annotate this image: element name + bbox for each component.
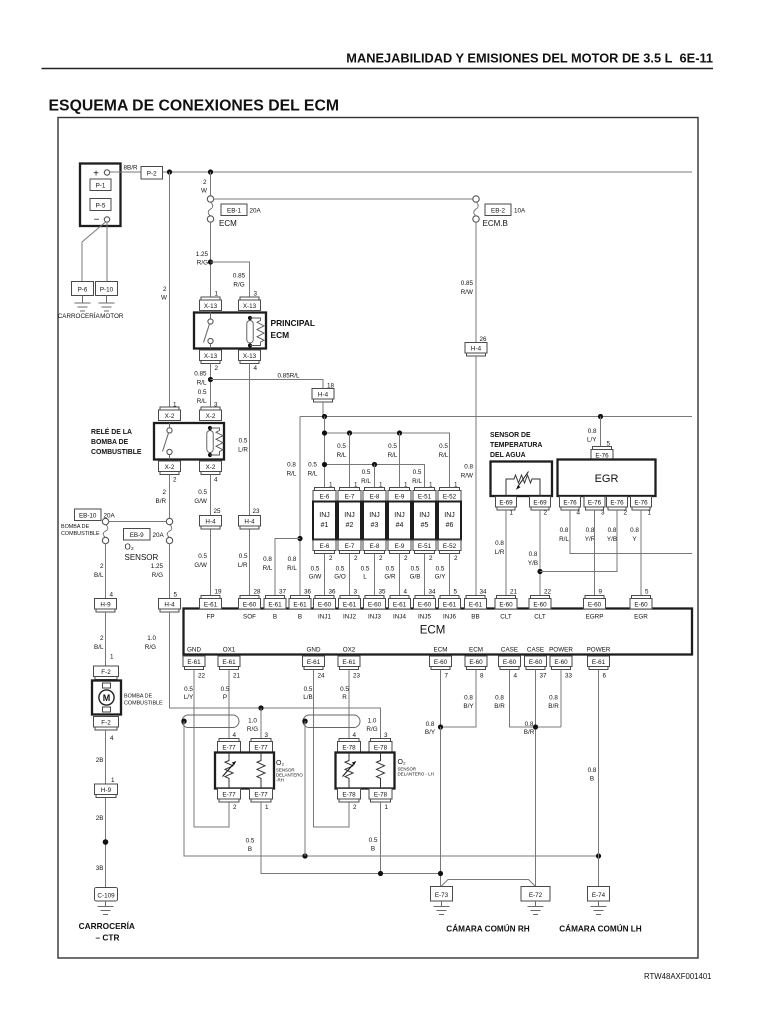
svg-text:B: B xyxy=(248,846,252,853)
connector E-60 pin 4 (CASE) xyxy=(499,647,521,680)
svg-text:4: 4 xyxy=(577,510,581,517)
svg-text:0.5: 0.5 xyxy=(246,838,255,845)
connector H-4 pin 5 xyxy=(159,592,181,613)
node sensor2 pin1 joins bus xyxy=(378,871,383,876)
connector X-2 pin 3 xyxy=(200,402,222,421)
svg-text:0.85: 0.85 xyxy=(233,273,246,280)
svg-text:E-7: E-7 xyxy=(345,543,355,550)
connector E-77 pin 3 xyxy=(250,732,273,752)
svg-text:OX2: OX2 xyxy=(343,647,356,654)
svg-text:P-10: P-10 xyxy=(100,287,114,294)
svg-text:E-7: E-7 xyxy=(345,494,355,501)
svg-text:8: 8 xyxy=(480,673,484,680)
connector E-76 pin 2 xyxy=(607,497,628,517)
svg-text:E-77: E-77 xyxy=(254,745,268,752)
battery box xyxy=(80,164,121,227)
connector H-9 pin 4 xyxy=(95,592,117,613)
svg-text:R/L: R/L xyxy=(439,452,449,459)
svg-text:E-78: E-78 xyxy=(342,792,356,799)
svg-text:CARROCERÍA: CARROCERÍA xyxy=(79,921,135,931)
connector E-60 pin 22 (CLT) xyxy=(529,589,552,621)
connector E-52 pin 1 xyxy=(438,482,461,502)
svg-text:0.5: 0.5 xyxy=(198,389,207,396)
svg-text:R/L: R/L xyxy=(412,478,422,485)
svg-text:5: 5 xyxy=(174,592,178,599)
wire INJ3 drop xyxy=(374,465,376,488)
svg-text:E-61: E-61 xyxy=(268,602,282,609)
svg-text:G/O: G/O xyxy=(334,574,346,581)
svg-text:0.8: 0.8 xyxy=(529,551,538,558)
svg-text:CASE: CASE xyxy=(501,647,518,654)
injector INJ5 xyxy=(413,502,436,540)
svg-text:4: 4 xyxy=(233,732,237,739)
svg-text:BOMBA DE: BOMBA DE xyxy=(124,694,153,700)
svg-text:20A: 20A xyxy=(104,513,116,520)
svg-text:R/G: R/G xyxy=(152,572,163,579)
svg-text:TEMPERATURA: TEMPERATURA xyxy=(490,442,542,449)
svg-text:−: − xyxy=(94,215,100,226)
injector INJ4 xyxy=(388,502,411,540)
connector E-61 pin 19 (FP) xyxy=(200,589,223,621)
svg-text:0.8: 0.8 xyxy=(287,462,296,469)
ground camara comun LH (E-74) xyxy=(591,901,607,915)
schematic frame border xyxy=(58,118,698,959)
svg-text:0.5: 0.5 xyxy=(361,566,370,573)
svg-text:L/R: L/R xyxy=(238,562,248,569)
svg-text:E-76: E-76 xyxy=(610,500,624,507)
wire INJ5 to ECM xyxy=(424,554,426,596)
svg-text:0.5: 0.5 xyxy=(340,686,349,693)
node battery branch xyxy=(167,169,172,174)
connector E-78 pin 4 xyxy=(338,732,361,752)
connector E-60 pin 7 (ECM) xyxy=(430,647,452,680)
svg-text:EGR: EGR xyxy=(595,473,619,485)
svg-text:Y/B: Y/B xyxy=(607,536,617,543)
svg-text:8B/R: 8B/R xyxy=(124,165,138,172)
svg-text:34: 34 xyxy=(480,589,488,596)
fuse EB-9 20A xyxy=(124,518,173,543)
svg-text:M: M xyxy=(103,693,111,703)
connector E-9 pin 1 xyxy=(388,482,411,502)
connector E-52 pin 2 xyxy=(438,540,461,562)
svg-text:0.5: 0.5 xyxy=(369,837,378,844)
connector H-4 pin 26 xyxy=(465,336,487,356)
ground carroceria CTR xyxy=(98,901,114,915)
svg-text:2: 2 xyxy=(233,804,237,811)
relay PRINCIPAL ECM xyxy=(194,313,266,349)
connector E-61 pin 34 (BB) xyxy=(465,589,488,621)
svg-text:E-9: E-9 xyxy=(395,494,405,501)
svg-text:BOMBA DE: BOMBA DE xyxy=(61,524,90,530)
svg-text:FP: FP xyxy=(206,614,214,621)
svg-text:0.5: 0.5 xyxy=(239,553,248,560)
wire INJ2 drop xyxy=(349,433,351,488)
svg-text:ECM: ECM xyxy=(434,647,448,654)
connector E-76 pin 4 xyxy=(560,497,581,517)
svg-text:37: 37 xyxy=(279,589,287,596)
svg-text:B/R: B/R xyxy=(494,703,505,710)
wire ECM B/Y to E-73 xyxy=(440,727,442,887)
wire injector feed vertical INJ1 xyxy=(324,417,326,488)
svg-text:2: 2 xyxy=(544,510,548,517)
svg-text:H-4: H-4 xyxy=(318,392,329,399)
svg-text:0.5: 0.5 xyxy=(198,553,207,560)
svg-text:E-8: E-8 xyxy=(370,494,380,501)
svg-text:B/R: B/R xyxy=(524,729,535,736)
svg-text:1: 1 xyxy=(385,804,389,811)
wire EB-9 to H-4 5 xyxy=(169,544,171,599)
wire H-4 23 to ECM SOF xyxy=(249,529,251,596)
svg-text:0.5: 0.5 xyxy=(239,438,248,445)
svg-text:36: 36 xyxy=(329,589,337,596)
svg-text:L: L xyxy=(363,574,367,581)
node line B INJ2 tap xyxy=(347,430,352,435)
connector F-2 pin 1 xyxy=(94,654,119,680)
svg-text:E-60: E-60 xyxy=(418,602,432,609)
wire fuse link EB-10 to EB-9 xyxy=(109,521,167,523)
connector X-2 pin 4 xyxy=(200,461,222,484)
svg-text:Y/B: Y/B xyxy=(528,560,538,567)
connector E-76 pin 3 xyxy=(584,497,605,517)
svg-text:R/G: R/G xyxy=(366,726,377,733)
svg-text:P-5: P-5 xyxy=(96,203,106,210)
svg-text:INJ: INJ xyxy=(394,512,405,519)
svg-text:0.8: 0.8 xyxy=(608,527,617,534)
svg-text:3: 3 xyxy=(384,732,388,739)
svg-text:25: 25 xyxy=(214,508,222,515)
svg-text:E-61: E-61 xyxy=(293,602,307,609)
connector E-6 pin 2 xyxy=(313,540,336,562)
connector E-60 pin 9 (EGRP) xyxy=(584,589,606,621)
wire E-69 1 to ECM CLT xyxy=(505,510,507,596)
connector E-7 pin 1 xyxy=(338,482,361,502)
svg-text:X-13: X-13 xyxy=(204,353,218,360)
svg-text:36: 36 xyxy=(304,589,312,596)
sensor O2 delantero RH xyxy=(215,753,274,789)
ground carroceria (P-6) xyxy=(75,296,91,312)
svg-text:3: 3 xyxy=(254,291,258,298)
svg-text:B/Y: B/Y xyxy=(463,703,474,710)
svg-text:#5: #5 xyxy=(421,522,429,529)
connector E-76 pin 1 xyxy=(631,497,652,517)
svg-text:GND: GND xyxy=(187,647,201,654)
connector F-2 pin 4 xyxy=(94,717,119,743)
svg-text:3: 3 xyxy=(265,732,269,739)
node line B INJ4 tap xyxy=(397,430,402,435)
wire INJ6 to ECM xyxy=(449,554,451,596)
svg-text:28: 28 xyxy=(254,589,262,596)
connector H-9 pin 1 xyxy=(95,777,118,798)
wire B feed pin37 xyxy=(275,539,300,596)
fuse EB-1 20A xyxy=(207,196,261,228)
svg-text:EGRP: EGRP xyxy=(586,614,604,621)
wire E-69 2 to ECM CLT xyxy=(539,510,541,596)
svg-text:E-69: E-69 xyxy=(499,500,513,507)
connector E-61 pin 36 (B) xyxy=(289,589,312,621)
wire heater feed 1.0 R/G xyxy=(170,612,381,739)
svg-text:0.85: 0.85 xyxy=(194,371,207,378)
svg-text:SOF: SOF xyxy=(243,614,256,621)
svg-text:E-60: E-60 xyxy=(368,602,382,609)
svg-text:20A: 20A xyxy=(250,208,262,215)
wire battery + to P-2 xyxy=(110,171,141,173)
connector E-6 pin 1 xyxy=(313,482,336,502)
svg-text:#6: #6 xyxy=(446,522,454,529)
svg-text:OX1: OX1 xyxy=(223,647,236,654)
svg-text:9: 9 xyxy=(599,589,603,596)
svg-text:B: B xyxy=(298,614,302,621)
wire injector bus line B xyxy=(325,433,450,488)
svg-text:W: W xyxy=(161,295,167,302)
svg-text:3B: 3B xyxy=(96,865,104,872)
connector E-51 pin 2 xyxy=(413,540,436,562)
svg-text:0.5: 0.5 xyxy=(388,443,397,450)
svg-text:B: B xyxy=(371,846,375,853)
connector X-2 pin 1 xyxy=(159,402,181,421)
svg-text:BOMBA DE: BOMBA DE xyxy=(91,439,129,446)
svg-text:0.8: 0.8 xyxy=(586,527,595,534)
wire INJ4 drop xyxy=(399,433,401,488)
svg-text:E-77: E-77 xyxy=(222,745,236,752)
wire 2W left column to fuel pump relay xyxy=(169,172,171,407)
svg-text:R/L: R/L xyxy=(287,565,297,572)
svg-text:G/W: G/W xyxy=(194,562,207,569)
svg-text:E-78: E-78 xyxy=(342,745,356,752)
svg-text:L/B: L/B xyxy=(303,694,312,701)
connector E-77 pin 4 xyxy=(218,732,241,752)
sensor O2 delantero LH xyxy=(336,753,395,789)
connector H-4 pin 23 xyxy=(239,508,261,529)
connector E-61 pin 37 (B) xyxy=(264,589,287,621)
node shield drain 1 xyxy=(181,719,186,724)
valvula EGR xyxy=(558,460,656,497)
svg-text:2: 2 xyxy=(329,555,333,562)
wire EB-10 to H-9 4 xyxy=(105,544,107,599)
svg-text:2: 2 xyxy=(353,804,357,811)
connector E-60 pin 8 (ECM) xyxy=(465,647,487,680)
svg-text:CASE: CASE xyxy=(527,647,544,654)
svg-text:1: 1 xyxy=(110,654,114,661)
wire EGR pin 1 to ECM EGR xyxy=(640,510,642,596)
battery terminal - xyxy=(104,217,109,222)
node CLT2 EGR junction xyxy=(537,569,542,574)
svg-text:G/Y: G/Y xyxy=(435,574,447,581)
svg-text:EB-9: EB-9 xyxy=(130,532,144,539)
svg-text:E-61: E-61 xyxy=(469,602,483,609)
node R/G split xyxy=(208,259,213,264)
wire B feed pin36 xyxy=(299,417,301,596)
svg-text:3: 3 xyxy=(601,510,605,517)
wire fuse link EB-1 to EB-2 xyxy=(214,198,473,200)
svg-text:INJ4: INJ4 xyxy=(393,614,406,621)
svg-text:R/G: R/G xyxy=(145,644,156,651)
svg-text:2: 2 xyxy=(163,286,167,293)
svg-text:R/L: R/L xyxy=(559,536,569,543)
wire POWER pin 33 drop xyxy=(560,670,562,728)
svg-text:E-77: E-77 xyxy=(254,792,268,799)
connector H-4 pin 18 xyxy=(312,383,335,403)
svg-text:B/R: B/R xyxy=(548,703,559,710)
svg-text:22: 22 xyxy=(544,589,552,596)
connector P-10 xyxy=(96,282,118,296)
svg-text:E-8: E-8 xyxy=(370,543,380,550)
svg-text:22: 22 xyxy=(198,673,206,680)
ground motor (P-10) xyxy=(99,296,115,312)
svg-text:E-61: E-61 xyxy=(204,602,218,609)
connector P-2 xyxy=(141,167,163,180)
svg-text:G/R: G/R xyxy=(384,574,396,581)
wire shield drain 2 xyxy=(304,721,306,856)
connector X-13 pin 1 xyxy=(200,291,222,311)
svg-text:CLT: CLT xyxy=(500,614,512,621)
svg-text:E-72: E-72 xyxy=(529,892,543,899)
wire CASE pin 37 to E-72 xyxy=(535,670,537,887)
svg-text:R/L: R/L xyxy=(308,471,318,478)
connector E-60 pin 33 (POWER) xyxy=(549,647,573,680)
svg-text:EGR: EGR xyxy=(634,614,648,621)
svg-text:X-2: X-2 xyxy=(206,413,216,420)
svg-text:0.8: 0.8 xyxy=(263,556,272,563)
svg-text:E-6: E-6 xyxy=(320,494,330,501)
svg-text:X-2: X-2 xyxy=(206,464,216,471)
connector E-61 pin 21 (OX1) xyxy=(218,647,241,680)
svg-text:0.5: 0.5 xyxy=(439,443,448,450)
svg-text:INJ6: INJ6 xyxy=(443,614,456,621)
svg-text:35: 35 xyxy=(379,589,387,596)
wire EGR L/Y feed xyxy=(600,417,602,447)
connector E-78 pin 2 xyxy=(338,789,361,812)
svg-text:E-6: E-6 xyxy=(320,543,330,550)
motor bomba de combustible xyxy=(92,681,121,715)
connector E-78 pin 1 xyxy=(369,789,392,812)
svg-text:4: 4 xyxy=(404,589,408,596)
svg-text:MANEJABILIDAD Y EMISIONES DEL: MANEJABILIDAD Y EMISIONES DEL MOTOR DE 3… xyxy=(346,51,713,66)
svg-text:CLT: CLT xyxy=(534,614,546,621)
wire ECM pin 7 drop xyxy=(440,670,442,728)
svg-text:CÁMARA COMÚN RH: CÁMARA COMÚN RH xyxy=(446,923,529,934)
wire main R/L bus (line A) xyxy=(300,416,692,418)
svg-text:0.8: 0.8 xyxy=(588,767,597,774)
connector X-13 pin 3 xyxy=(239,291,261,311)
connector E-61 pin 5 (INJ6) xyxy=(439,589,461,621)
svg-text:E-60: E-60 xyxy=(588,602,602,609)
svg-text:1: 1 xyxy=(215,291,219,298)
connector E-60 pin 5 (EGR) xyxy=(630,589,652,621)
sensor temperatura del agua xyxy=(491,462,553,497)
wire H-9 4 to F-2 1 xyxy=(105,612,107,666)
svg-text:4: 4 xyxy=(353,732,357,739)
node B/Y joins sensor ground bus xyxy=(438,871,443,876)
svg-text:0.5: 0.5 xyxy=(386,566,395,573)
svg-text:0.8: 0.8 xyxy=(464,464,473,471)
wire EB-1 to R/G split xyxy=(210,222,212,297)
wire H-4 25 to ECM FP xyxy=(210,529,212,596)
svg-text:0.5: 0.5 xyxy=(411,566,420,573)
svg-text:7: 7 xyxy=(445,673,449,680)
svg-text:E-60: E-60 xyxy=(318,602,332,609)
svg-text:L/Y: L/Y xyxy=(587,437,597,444)
svg-text:G/B: G/B xyxy=(410,574,421,581)
connector E-61 pin 4 (INJ4) xyxy=(389,589,411,621)
svg-text:1.0: 1.0 xyxy=(248,718,257,725)
svg-text:0.5: 0.5 xyxy=(436,566,445,573)
svg-text:E-61: E-61 xyxy=(222,659,236,666)
node injector feed tap xyxy=(322,414,327,419)
svg-text:E-60: E-60 xyxy=(529,659,543,666)
svg-text:O₂: O₂ xyxy=(125,543,134,552)
svg-text:0.8: 0.8 xyxy=(464,695,473,702)
svg-text:4: 4 xyxy=(110,735,114,742)
svg-text:X-13: X-13 xyxy=(243,353,257,360)
svg-text:O₂: O₂ xyxy=(276,760,284,767)
svg-text:E-60: E-60 xyxy=(634,602,648,609)
svg-text:0.8: 0.8 xyxy=(426,721,435,728)
svg-text:6: 6 xyxy=(603,673,607,680)
svg-text:RTW48AXF001401: RTW48AXF001401 xyxy=(644,972,711,981)
svg-text:ECM.B: ECM.B xyxy=(483,219,508,228)
node EGR feed tap xyxy=(598,414,603,419)
svg-text:INJ3: INJ3 xyxy=(368,614,381,621)
svg-text:0.5: 0.5 xyxy=(336,566,345,573)
svg-text:1: 1 xyxy=(265,804,269,811)
connector E-73 xyxy=(431,887,453,902)
wire R/L branch to H-4 18 xyxy=(211,380,324,389)
svg-text:B/Y: B/Y xyxy=(425,729,436,736)
wire injector bus line C xyxy=(325,465,425,488)
svg-text:RELÉ DE LA: RELÉ DE LA xyxy=(91,427,132,436)
wire INJ2 to ECM xyxy=(349,554,351,596)
svg-text:0.5: 0.5 xyxy=(198,489,207,496)
wire F-2 4 to C-109 xyxy=(105,730,107,888)
svg-text:EB-2: EB-2 xyxy=(491,208,505,215)
connector E-60 pin 21 (CLT) xyxy=(495,589,518,621)
svg-text:21: 21 xyxy=(510,589,518,596)
node line C at INJ1 xyxy=(322,462,327,467)
node R/L split xyxy=(208,377,213,382)
node EB-1 branch xyxy=(208,169,213,174)
node line C INJ3 tap xyxy=(372,462,377,467)
svg-text:0.85R/L: 0.85R/L xyxy=(277,373,300,380)
ground camara comun RH (E-73) xyxy=(434,901,450,915)
svg-text:0.5: 0.5 xyxy=(221,686,230,693)
wire battery - to P-10 xyxy=(106,222,108,281)
svg-text:G/W: G/W xyxy=(309,574,322,581)
svg-text:1: 1 xyxy=(111,777,115,784)
svg-text:E-77: E-77 xyxy=(222,792,236,799)
svg-text:SENSOR DE: SENSOR DE xyxy=(490,432,531,439)
svg-text:H-4: H-4 xyxy=(471,346,482,353)
svg-text:2: 2 xyxy=(379,555,383,562)
shield capsule sensor2 xyxy=(303,715,360,728)
svg-text:R/W: R/W xyxy=(461,473,473,480)
svg-text:P-1: P-1 xyxy=(96,183,106,190)
svg-text:W: W xyxy=(201,188,207,195)
svg-text:INJ: INJ xyxy=(444,512,455,519)
connector E-61 pin 6 (POWER) xyxy=(587,647,611,680)
connector E-7 pin 2 xyxy=(338,540,361,562)
svg-text:2B: 2B xyxy=(96,757,104,764)
ground camara comun RH (E-72) xyxy=(528,901,544,915)
node B split xyxy=(297,536,302,541)
svg-text:INJ2: INJ2 xyxy=(343,614,356,621)
svg-text:R/W: R/W xyxy=(461,289,473,296)
svg-text:CÁMARA COMÚN LH: CÁMARA COMÚN LH xyxy=(559,923,642,934)
svg-text:R/L: R/L xyxy=(197,398,207,405)
svg-text:INJ: INJ xyxy=(369,512,380,519)
svg-text:INJ5: INJ5 xyxy=(418,614,431,621)
svg-text:R/L: R/L xyxy=(337,452,347,459)
svg-text:INJ: INJ xyxy=(319,512,330,519)
